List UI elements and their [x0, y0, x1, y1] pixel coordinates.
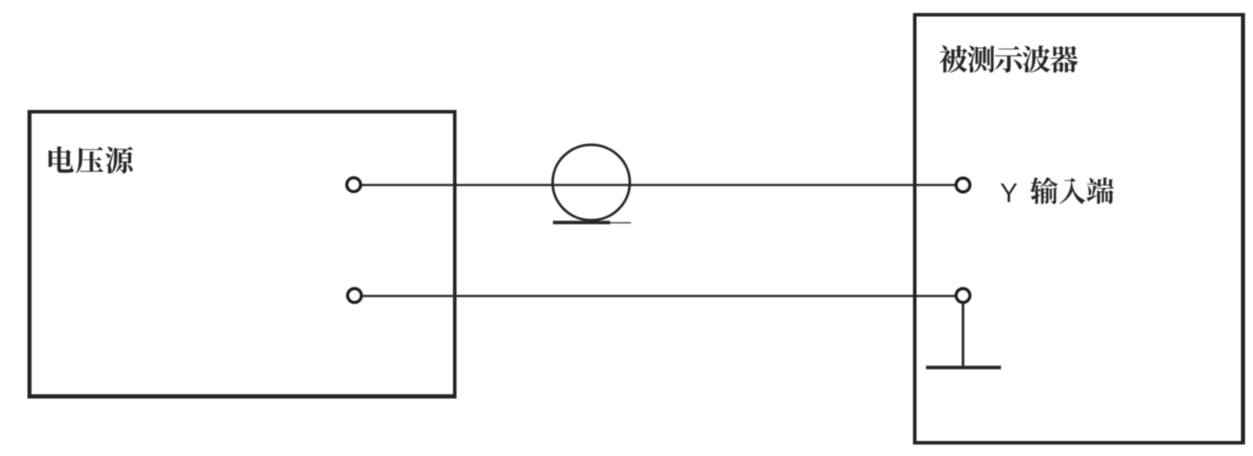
text glyph 压 (label: voltage source)	[76, 147, 103, 174]
oscilloscope box: right side	[1241, 13, 1245, 445]
text glyph 电 (label: voltage source)	[49, 146, 74, 172]
bottom wire (ground return)	[363, 295, 955, 297]
oscilloscope box: top side	[913, 13, 1245, 17]
text glyph 端 (label: input terminal)	[1087, 177, 1114, 203]
probe loop base line (thin part)	[610, 222, 631, 224]
ground stem	[962, 303, 965, 368]
text glyph 源 (label: voltage source)	[105, 147, 133, 174]
terminal: scope Y input	[956, 178, 970, 192]
top wire (Y signal)	[362, 184, 956, 186]
voltage source box: top side	[28, 110, 457, 114]
oscilloscope box: left side	[913, 13, 917, 445]
terminal: voltage source output -	[348, 289, 362, 303]
probe loop circle	[553, 145, 630, 220]
text glyph 入 (label: input terminal)	[1059, 178, 1086, 204]
voltage source box: bottom side	[28, 394, 457, 398]
text glyph 被 (label: oscilloscope under test)	[939, 45, 967, 72]
text glyph 示 (label: oscilloscope under test)	[995, 46, 1022, 72]
voltage source box: left side	[28, 110, 32, 399]
terminal: voltage source output +	[347, 178, 361, 192]
text glyph 波 (label: oscilloscope under test)	[1023, 46, 1051, 73]
oscilloscope box: bottom side	[913, 441, 1245, 445]
text glyph 测 (label: oscilloscope under test)	[967, 46, 994, 73]
text glyph 输 (label: input terminal)	[1030, 177, 1058, 204]
svg-text:Y: Y	[1000, 178, 1018, 208]
voltage source box: right side	[453, 110, 457, 399]
terminal: scope ground	[956, 289, 970, 303]
text glyph 器 (label: oscilloscope under test)	[1050, 46, 1078, 73]
probe loop base line (thick part)	[553, 221, 610, 225]
ground bar	[926, 366, 1001, 370]
